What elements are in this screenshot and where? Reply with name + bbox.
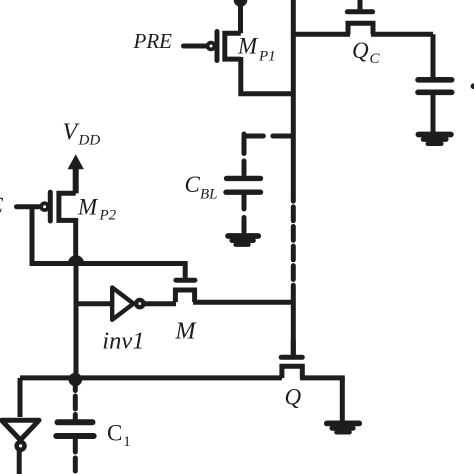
wire bit line dashed middle — [291, 201, 296, 295]
transistor M — [175, 261, 293, 302]
input wire — [76, 301, 110, 306]
source wire left — [293, 32, 350, 37]
corner horizontal piece — [244, 134, 246, 139]
svg-text:BL: BL — [200, 187, 218, 203]
svg-text:P1: P1 — [258, 49, 276, 65]
bottom plate — [418, 90, 452, 96]
gate bar — [176, 278, 195, 283]
svg-text:inv1: inv1 — [102, 327, 144, 354]
ground (C_BL) — [228, 236, 258, 245]
top plate — [418, 77, 452, 83]
top plate — [227, 176, 261, 181]
node bottom junction dot — [69, 373, 83, 387]
transistor M_P1 — [184, 32, 294, 94]
power arrow V_DD — [68, 154, 84, 193]
wire node row horizontal — [76, 261, 185, 266]
gate bar — [347, 9, 372, 14]
svg-text:V: V — [63, 120, 80, 146]
capacitor C_BL — [226, 178, 261, 232]
svg-text:M: M — [77, 195, 99, 220]
gate wire — [17, 204, 40, 209]
wire bottom row — [20, 375, 282, 380]
svg-text:M: M — [237, 34, 259, 59]
bottom plate — [226, 189, 261, 194]
dashed lead top — [73, 386, 78, 419]
lead to ground — [431, 95, 436, 132]
inverter (down, cut at left) — [2, 420, 39, 474]
channel + legs — [175, 290, 194, 302]
capacitor right (cell cap) — [418, 34, 452, 132]
inverter inv1 — [76, 288, 176, 320]
wire gate feedback loop — [30, 207, 77, 264]
corner + vertical dashes — [242, 134, 247, 175]
gate bubble — [208, 43, 215, 50]
gate bubble — [41, 203, 48, 210]
output wire down — [17, 451, 22, 474]
node gate-drain junction bump — [68, 255, 84, 263]
channel bar + leads — [59, 193, 76, 220]
dashed lead bottom — [73, 439, 78, 474]
drain wire right — [300, 375, 345, 380]
wire cut at right edge — [473, 83, 474, 89]
horizontal dashes — [246, 134, 291, 139]
transistor Q — [281, 340, 345, 378]
source corner up / drain down — [73, 190, 78, 264]
capacitor C_1 — [56, 386, 93, 474]
gate lead — [358, 0, 363, 9]
wire bit line solid top — [291, 0, 296, 201]
drain wire right — [193, 300, 293, 305]
wire left rail down — [74, 261, 79, 380]
transistor Q_C — [293, 0, 433, 34]
transistor M_P2 — [17, 190, 76, 264]
ground (right cap) — [418, 135, 451, 144]
svg-text:M: M — [175, 319, 198, 345]
svg-text:1: 1 — [123, 434, 131, 450]
drain down wire — [241, 57, 293, 94]
ground (Q) — [327, 423, 359, 432]
gate lead — [291, 340, 296, 355]
svg-text:C: C — [0, 193, 4, 218]
output bubble — [17, 442, 25, 450]
wire Q to ground — [340, 378, 345, 421]
svg-text:C: C — [370, 51, 381, 67]
output bubble — [136, 300, 143, 307]
gate lead from node row — [183, 261, 188, 278]
channel + legs — [348, 23, 373, 34]
triangle — [112, 288, 133, 320]
svg-text:DD: DD — [78, 133, 101, 149]
triangle — [2, 420, 39, 440]
output wire — [145, 301, 177, 306]
svg-text:C: C — [107, 421, 122, 446]
lead to ground dashes — [242, 195, 247, 232]
svg-text:Q: Q — [352, 38, 369, 63]
svg-text:C: C — [185, 172, 201, 197]
node top junction dot — [234, 0, 248, 7]
wire left branch down — [18, 378, 23, 417]
gate bar — [281, 355, 302, 360]
capacitor C_BL dashed branch to bit line — [244, 134, 291, 175]
svg-text:PRE: PRE — [133, 29, 173, 53]
channel bar + leads — [225, 33, 241, 59]
wire M_P1 source up — [238, 0, 243, 33]
gate bar — [48, 192, 53, 221]
bottom plate — [56, 433, 93, 439]
channel + legs — [282, 366, 302, 378]
wire bit line solid bottom — [291, 295, 296, 355]
svg-text:Q: Q — [285, 385, 302, 410]
lead down — [431, 34, 436, 77]
gate wire from PRE — [184, 44, 206, 49]
drain wire right — [371, 32, 433, 37]
svg-text:P2: P2 — [99, 207, 117, 223]
gate bar — [215, 32, 220, 61]
top plate — [58, 419, 93, 425]
